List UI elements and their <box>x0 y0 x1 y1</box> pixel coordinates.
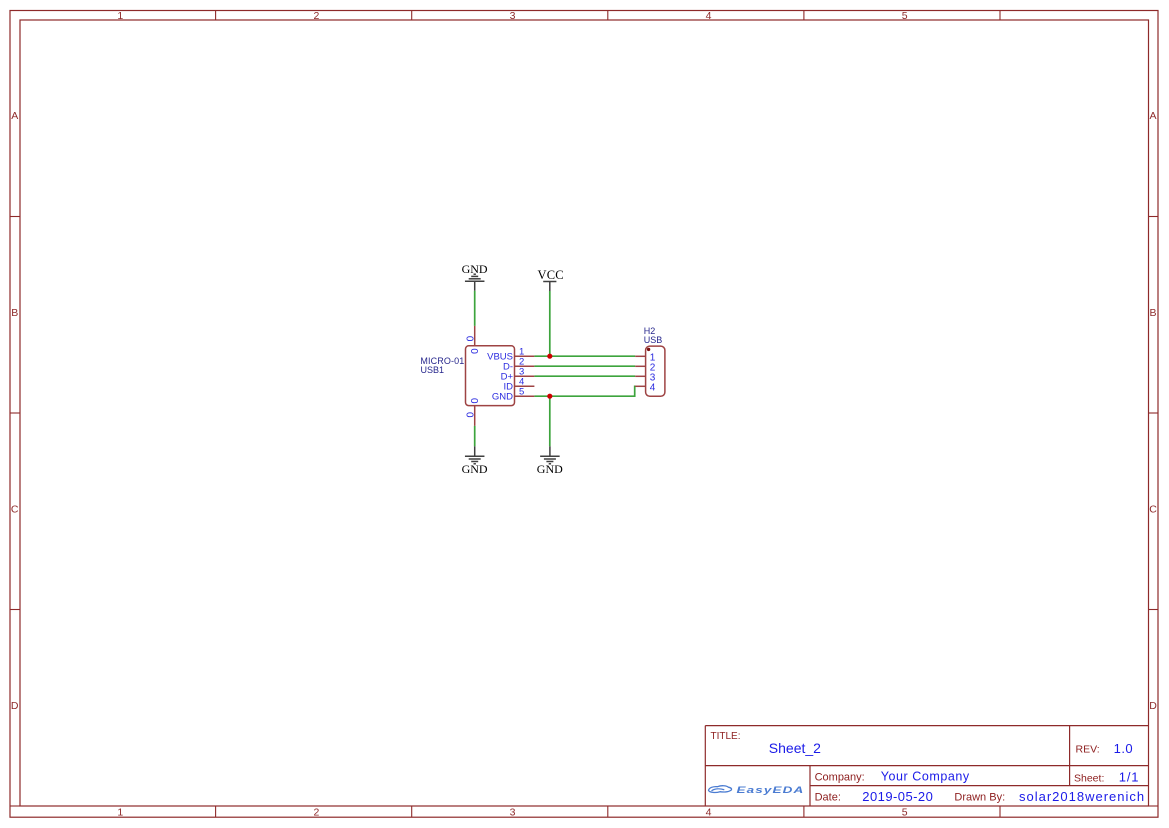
svg-text:A: A <box>1149 110 1156 122</box>
svg-text:GND: GND <box>537 462 563 476</box>
svg-text:1: 1 <box>117 806 123 818</box>
H2 pin 1 <box>635 355 645 357</box>
H2 polarity dot <box>647 348 650 351</box>
USB1 pin number 0 top outside <box>464 336 475 342</box>
svg-text:VCC: VCC <box>538 268 564 282</box>
svg-text:B: B <box>1149 307 1156 319</box>
wire from top ground to USB1 pin 0 <box>474 291 476 326</box>
USB1 pin 0 top <box>474 326 476 346</box>
svg-text:1: 1 <box>117 10 123 22</box>
USB1 pin 4 <box>515 385 535 387</box>
row labels right <box>1149 110 1157 712</box>
wire GND net down to ground <box>549 396 551 446</box>
svg-text:GND: GND <box>492 392 513 403</box>
connector USB1 body <box>466 346 515 406</box>
USB1 pin name 0 bottom inside <box>468 398 479 404</box>
column labels top <box>117 10 907 22</box>
frame tick marks left <box>10 217 20 807</box>
USB1 pin 0 bottom <box>474 406 476 426</box>
frame tick marks bottom <box>216 806 1000 817</box>
svg-text:5: 5 <box>519 386 524 397</box>
svg-text:3: 3 <box>510 806 516 818</box>
svg-text:Sheet:: Sheet: <box>1074 773 1104 785</box>
svg-text:Drawn By:: Drawn By: <box>954 792 1005 804</box>
row labels left <box>11 110 19 712</box>
svg-text:A: A <box>11 110 18 122</box>
svg-text:USB: USB <box>644 335 663 345</box>
svg-text:USB1: USB1 <box>421 365 445 375</box>
svg-text:B: B <box>11 307 18 319</box>
USB1 pin number 0 bottom outside <box>464 412 475 418</box>
column labels bottom <box>117 806 907 818</box>
ground symbol bottom middle <box>540 446 560 464</box>
svg-text:1/1: 1/1 <box>1119 770 1139 785</box>
wire net VBUS <box>534 355 635 357</box>
svg-text:EasyEDA: EasyEDA <box>737 785 805 796</box>
svg-text:5: 5 <box>902 10 908 22</box>
svg-text:4: 4 <box>706 806 712 818</box>
svg-text:0: 0 <box>464 412 475 418</box>
svg-text:2: 2 <box>313 10 319 22</box>
USB1 pin name 0 top inside <box>468 348 479 354</box>
H2 pin 4 <box>635 385 645 387</box>
svg-text:C: C <box>11 503 19 515</box>
svg-text:0: 0 <box>468 348 479 354</box>
svg-text:1.0: 1.0 <box>1114 741 1134 756</box>
svg-text:Sheet_2: Sheet_2 <box>769 740 821 756</box>
svg-text:4: 4 <box>706 10 712 22</box>
EasyEDA logo swoosh <box>709 786 732 793</box>
H2 pin 3 <box>635 375 645 377</box>
svg-text:C: C <box>1149 503 1157 515</box>
svg-text:GND: GND <box>462 462 488 476</box>
wire VCC vertical to VBUS net <box>549 291 551 356</box>
svg-text:REV:: REV: <box>1076 744 1100 756</box>
title block outline <box>705 726 1148 806</box>
H2 pin 2 <box>635 365 645 367</box>
connector H2 body <box>646 346 665 396</box>
frame tick marks right <box>1149 217 1159 807</box>
wire net D- <box>534 365 635 367</box>
svg-text:5: 5 <box>902 806 908 818</box>
USB1 pin 3 <box>515 375 535 377</box>
USB1 pin 1 <box>515 355 535 357</box>
frame tick marks top <box>216 11 1000 21</box>
svg-text:2: 2 <box>313 806 319 818</box>
power symbol VCC <box>543 282 556 292</box>
svg-text:0: 0 <box>464 336 475 342</box>
svg-text:4: 4 <box>650 382 656 393</box>
wire USB1 bottom pin to ground <box>474 426 476 446</box>
USB1 pin 2 <box>515 365 535 367</box>
USB1 pin 5 <box>515 395 535 397</box>
svg-text:GND: GND <box>462 262 488 276</box>
junction VBUS/VCC <box>547 354 552 359</box>
wire net D+ <box>534 375 635 377</box>
svg-text:Your Company: Your Company <box>881 770 970 784</box>
svg-text:Date:: Date: <box>815 792 841 804</box>
svg-text:solar2018werenich: solar2018werenich <box>1019 789 1145 804</box>
svg-text:2019-05-20: 2019-05-20 <box>862 789 933 804</box>
junction GND <box>547 394 552 399</box>
svg-text:TITLE:: TITLE: <box>711 731 741 742</box>
ground symbol bottom left <box>465 446 485 464</box>
ground symbol top (rotated earth ground above USB1) <box>465 274 485 291</box>
svg-text:D: D <box>11 700 19 712</box>
svg-text:0: 0 <box>468 398 479 404</box>
svg-text:Company:: Company: <box>815 771 865 783</box>
svg-text:D: D <box>1149 700 1157 712</box>
svg-text:3: 3 <box>510 10 516 22</box>
wire net GND with jog to H2 pin 4 <box>534 386 635 396</box>
